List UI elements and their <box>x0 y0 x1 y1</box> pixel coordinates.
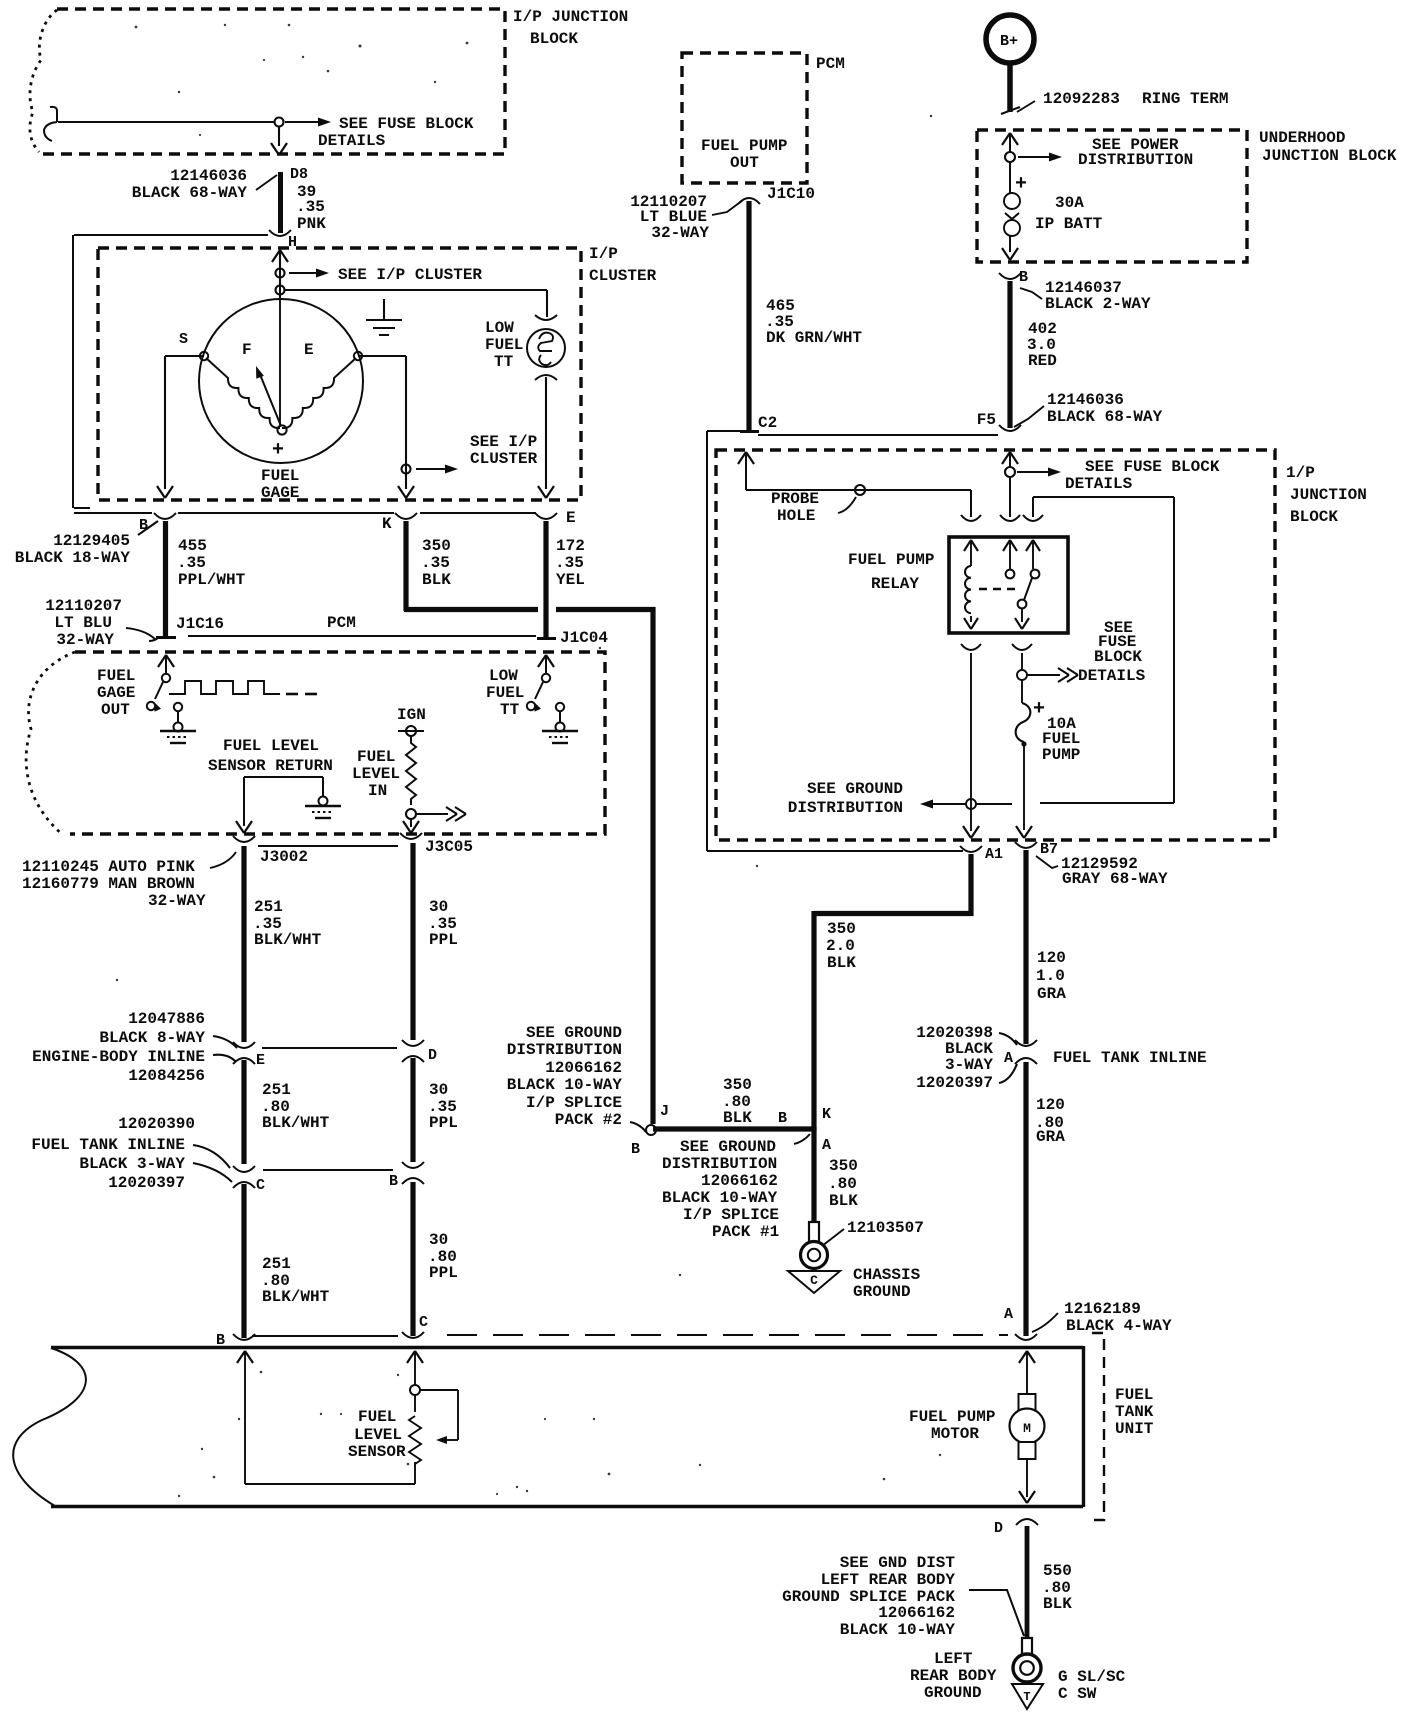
svg-text:12146036: 12146036 <box>170 167 247 185</box>
svg-text:FUEL: FUEL <box>97 667 135 685</box>
svg-text:FUEL: FUEL <box>485 336 523 354</box>
svg-text:350: 350 <box>422 537 451 555</box>
svg-text:UNDERHOOD: UNDERHOOD <box>1259 129 1345 147</box>
svg-text:12146036: 12146036 <box>1047 391 1124 409</box>
svg-text:BLACK 10-WAY: BLACK 10-WAY <box>507 1076 623 1094</box>
svg-text:C: C <box>419 1314 428 1331</box>
svg-text:B7: B7 <box>1040 841 1058 858</box>
svg-text:D: D <box>994 1520 1003 1537</box>
svg-text:120: 120 <box>1037 949 1066 967</box>
svg-text:H: H <box>288 234 297 251</box>
svg-text:12020397: 12020397 <box>916 1074 993 1092</box>
svg-text:12103507: 12103507 <box>847 1219 924 1237</box>
svg-text:+: + <box>272 439 284 462</box>
svg-text:BLK/WHT: BLK/WHT <box>262 1114 330 1132</box>
svg-text:I/P SPLICE: I/P SPLICE <box>683 1206 779 1224</box>
svg-text:DETAILS: DETAILS <box>1065 475 1133 493</box>
svg-text:455: 455 <box>178 537 207 555</box>
svg-text:HOLE: HOLE <box>777 507 815 525</box>
svg-text:TT: TT <box>494 353 514 371</box>
svg-text:B: B <box>631 1141 640 1158</box>
svg-text:BLK/WHT: BLK/WHT <box>254 931 322 949</box>
svg-text:E: E <box>256 1052 265 1069</box>
svg-text:JUNCTION: JUNCTION <box>1290 486 1367 504</box>
svg-text:12066162: 12066162 <box>878 1604 955 1622</box>
svg-text:+: + <box>1015 173 1027 196</box>
svg-text:LEFT: LEFT <box>934 1650 973 1668</box>
svg-text:IN: IN <box>368 782 387 800</box>
svg-text:E: E <box>304 341 314 359</box>
svg-text:BLK/WHT: BLK/WHT <box>262 1288 330 1306</box>
svg-text:BLACK 8-WAY: BLACK 8-WAY <box>99 1029 205 1047</box>
svg-text:12129405: 12129405 <box>53 532 130 550</box>
svg-text:550: 550 <box>1043 1562 1072 1580</box>
svg-text:BLK: BLK <box>723 1109 752 1127</box>
svg-text:3-WAY: 3-WAY <box>945 1056 993 1074</box>
svg-text:12020390: 12020390 <box>118 1115 195 1133</box>
svg-text:B+: B+ <box>1000 33 1018 50</box>
svg-text:+: + <box>1033 698 1045 721</box>
svg-text:SEE I/P CLUSTER: SEE I/P CLUSTER <box>338 266 482 284</box>
svg-text:FUEL: FUEL <box>358 1408 396 1426</box>
svg-text:30: 30 <box>429 898 448 916</box>
svg-text:I/P SPLICE: I/P SPLICE <box>526 1094 622 1112</box>
svg-text:251: 251 <box>262 1255 291 1273</box>
svg-text:J1C10: J1C10 <box>767 185 815 203</box>
svg-text:FUEL: FUEL <box>486 684 524 702</box>
svg-text:12020397: 12020397 <box>108 1174 185 1192</box>
svg-text:350: 350 <box>829 1157 858 1175</box>
svg-text:GRAY 68-WAY: GRAY 68-WAY <box>1062 870 1168 888</box>
svg-text:LEVEL: LEVEL <box>352 765 400 783</box>
svg-text:FUEL: FUEL <box>261 467 299 485</box>
svg-text:12092283: 12092283 <box>1043 90 1120 108</box>
svg-text:172: 172 <box>556 537 585 555</box>
svg-text:PNK: PNK <box>297 215 326 233</box>
svg-text:A1: A1 <box>985 846 1003 863</box>
svg-text:F: F <box>242 341 252 359</box>
svg-text:I/P: I/P <box>589 245 618 263</box>
svg-text:A: A <box>822 1137 831 1154</box>
svg-text:30: 30 <box>429 1231 448 1249</box>
svg-text:IP BATT: IP BATT <box>1035 215 1103 233</box>
svg-text:.35: .35 <box>555 554 584 572</box>
svg-text:K: K <box>822 1106 831 1123</box>
svg-text:BLACK 3-WAY: BLACK 3-WAY <box>79 1155 185 1173</box>
svg-text:D8: D8 <box>290 166 308 183</box>
svg-text:BLACK 4-WAY: BLACK 4-WAY <box>1066 1317 1172 1335</box>
svg-text:RING TERM: RING TERM <box>1142 90 1228 108</box>
svg-text:1.0: 1.0 <box>1036 967 1065 985</box>
svg-text:J1C04: J1C04 <box>560 629 608 647</box>
svg-text:JUNCTION BLOCK: JUNCTION BLOCK <box>1262 147 1397 165</box>
svg-text:PACK #2: PACK #2 <box>555 1111 622 1129</box>
svg-text:S: S <box>179 331 188 348</box>
svg-text:BLOCK: BLOCK <box>1094 648 1142 666</box>
svg-text:12160779 MAN BROWN: 12160779 MAN BROWN <box>22 875 195 893</box>
svg-text:BLACK 18-WAY: BLACK 18-WAY <box>15 549 131 567</box>
svg-text:SEE FUSE BLOCK: SEE FUSE BLOCK <box>339 115 474 133</box>
svg-text:J3C05: J3C05 <box>425 838 473 856</box>
svg-text:CHASSIS: CHASSIS <box>853 1266 921 1284</box>
svg-text:30: 30 <box>429 1081 448 1099</box>
svg-text:BLACK 10-WAY: BLACK 10-WAY <box>662 1189 778 1207</box>
svg-text:1/P: 1/P <box>1286 464 1315 482</box>
svg-text:OUT: OUT <box>101 701 130 719</box>
svg-text:32-WAY: 32-WAY <box>56 631 114 649</box>
svg-text:32-WAY: 32-WAY <box>651 224 709 242</box>
svg-text:OUT: OUT <box>730 154 759 172</box>
svg-text:DETAILS: DETAILS <box>1078 667 1146 685</box>
svg-text:DISTRIBUTION: DISTRIBUTION <box>507 1041 622 1059</box>
svg-text:FUEL: FUEL <box>1115 1386 1153 1404</box>
svg-text:GROUND: GROUND <box>853 1283 911 1301</box>
svg-text:251: 251 <box>254 898 283 916</box>
svg-text:PUMP: PUMP <box>1042 746 1080 764</box>
svg-text:251: 251 <box>262 1081 291 1099</box>
svg-text:B: B <box>1019 269 1028 286</box>
svg-text:GRA: GRA <box>1036 1128 1065 1146</box>
svg-text:PCM: PCM <box>327 614 356 632</box>
svg-text:C: C <box>810 1273 818 1288</box>
svg-text:LOW: LOW <box>489 667 518 685</box>
svg-text:YEL: YEL <box>556 571 585 589</box>
svg-text:PROBE: PROBE <box>771 490 819 508</box>
svg-text:J3002: J3002 <box>260 848 308 866</box>
svg-text:GAGE: GAGE <box>97 684 135 702</box>
svg-text:SEE FUSE BLOCK: SEE FUSE BLOCK <box>1085 458 1220 476</box>
svg-text:PACK #1: PACK #1 <box>712 1223 779 1241</box>
svg-text:.35: .35 <box>177 554 206 572</box>
svg-text:FUEL PUMP: FUEL PUMP <box>848 551 934 569</box>
svg-text:MOTOR: MOTOR <box>931 1425 979 1443</box>
svg-text:B: B <box>389 1173 398 1190</box>
svg-text:DETAILS: DETAILS <box>318 132 386 150</box>
svg-text:BLACK 10-WAY: BLACK 10-WAY <box>840 1621 956 1639</box>
svg-text:A: A <box>1004 1050 1013 1067</box>
svg-text:I/P JUNCTION: I/P JUNCTION <box>513 8 628 26</box>
svg-text:CLUSTER: CLUSTER <box>470 450 538 468</box>
svg-text:SENSOR: SENSOR <box>348 1443 406 1461</box>
svg-text:12066162: 12066162 <box>545 1059 622 1077</box>
svg-text:DK GRN/WHT: DK GRN/WHT <box>766 329 862 347</box>
svg-text:A: A <box>1004 1306 1013 1323</box>
svg-text:12110207: 12110207 <box>45 597 122 615</box>
svg-text:TANK: TANK <box>1115 1403 1154 1421</box>
svg-text:120: 120 <box>1036 1096 1065 1114</box>
svg-text:32-WAY: 32-WAY <box>148 892 206 910</box>
svg-text:M: M <box>1023 1421 1031 1436</box>
svg-text:PPL/WHT: PPL/WHT <box>178 571 246 589</box>
svg-text:E: E <box>566 509 576 527</box>
svg-text:350: 350 <box>827 920 856 938</box>
svg-text:LEFT REAR BODY: LEFT REAR BODY <box>821 1571 956 1589</box>
svg-text:G SL/SC: G SL/SC <box>1058 1668 1126 1686</box>
svg-text:IGN: IGN <box>397 706 426 724</box>
svg-text:F5: F5 <box>977 411 996 429</box>
svg-text:RELAY: RELAY <box>871 575 919 593</box>
svg-text:GAGE: GAGE <box>261 484 299 502</box>
svg-text:J: J <box>660 1103 669 1120</box>
svg-text:12084256: 12084256 <box>128 1067 205 1085</box>
svg-text:SEE GROUND: SEE GROUND <box>526 1024 622 1042</box>
svg-text:BLK: BLK <box>829 1192 858 1210</box>
svg-text:FUEL LEVEL: FUEL LEVEL <box>223 737 319 755</box>
svg-text:BLK: BLK <box>1043 1595 1072 1613</box>
svg-text:B: B <box>778 1110 787 1127</box>
svg-text:ENGINE-BODY INLINE: ENGINE-BODY INLINE <box>32 1048 205 1066</box>
svg-text:BLOCK: BLOCK <box>1290 508 1338 526</box>
svg-text:DISTRIBUTION: DISTRIBUTION <box>1078 151 1193 169</box>
svg-text:SEE I/P: SEE I/P <box>470 433 537 451</box>
svg-text:350: 350 <box>723 1076 752 1094</box>
svg-text:BLACK 68-WAY: BLACK 68-WAY <box>132 184 248 202</box>
svg-text:T: T <box>1023 1690 1030 1704</box>
svg-text:BLACK 68-WAY: BLACK 68-WAY <box>1047 408 1163 426</box>
svg-text:D: D <box>428 1047 437 1064</box>
svg-text:SEE GND DIST: SEE GND DIST <box>840 1554 956 1572</box>
svg-text:SEE GROUND: SEE GROUND <box>680 1138 776 1156</box>
svg-text:UNIT: UNIT <box>1115 1420 1154 1438</box>
svg-text:2.0: 2.0 <box>826 937 855 955</box>
svg-text:PPL: PPL <box>429 1114 458 1132</box>
svg-text:REAR BODY: REAR BODY <box>910 1667 997 1685</box>
svg-text:K: K <box>382 515 392 533</box>
svg-text:PPL: PPL <box>429 931 458 949</box>
svg-text:GROUND: GROUND <box>924 1684 982 1702</box>
svg-text:30A: 30A <box>1055 194 1084 212</box>
svg-text:BLK: BLK <box>422 571 451 589</box>
svg-text:CLUSTER: CLUSTER <box>589 267 657 285</box>
svg-text:SENSOR RETURN: SENSOR RETURN <box>208 757 333 775</box>
svg-text:BLOCK: BLOCK <box>530 30 578 48</box>
svg-text:FUEL TANK INLINE: FUEL TANK INLINE <box>1053 1049 1207 1067</box>
svg-text:FUEL PUMP: FUEL PUMP <box>909 1408 995 1426</box>
svg-text:12162189: 12162189 <box>1064 1300 1141 1318</box>
svg-text:C2: C2 <box>758 414 777 432</box>
svg-text:GRA: GRA <box>1037 985 1066 1003</box>
svg-text:J1C16: J1C16 <box>176 615 224 633</box>
svg-text:SEE GROUND: SEE GROUND <box>807 780 903 798</box>
svg-text:PPL: PPL <box>429 1264 458 1282</box>
svg-text:.35: .35 <box>296 198 325 216</box>
svg-text:DISTRIBUTION: DISTRIBUTION <box>788 799 903 817</box>
svg-text:12110245 AUTO PINK: 12110245 AUTO PINK <box>22 858 195 876</box>
svg-text:C SW: C SW <box>1058 1685 1097 1703</box>
svg-text:BLK: BLK <box>827 954 856 972</box>
svg-text:TT: TT <box>500 701 520 719</box>
svg-text:RED: RED <box>1028 352 1057 370</box>
svg-text:PCM: PCM <box>816 55 845 73</box>
svg-text:FUEL: FUEL <box>357 748 395 766</box>
svg-text:LOW: LOW <box>485 319 514 337</box>
svg-text:DISTRIBUTION: DISTRIBUTION <box>662 1155 777 1173</box>
svg-text:.80: .80 <box>828 1175 857 1193</box>
svg-text:.35: .35 <box>421 554 450 572</box>
svg-text:LT BLU: LT BLU <box>54 614 112 632</box>
svg-text:BLACK 2-WAY: BLACK 2-WAY <box>1045 295 1151 313</box>
svg-text:LEVEL: LEVEL <box>354 1426 402 1444</box>
svg-text:12047886: 12047886 <box>128 1010 205 1028</box>
svg-text:FUEL PUMP: FUEL PUMP <box>701 137 787 155</box>
svg-text:12066162: 12066162 <box>701 1172 778 1190</box>
svg-text:FUEL TANK INLINE: FUEL TANK INLINE <box>31 1136 185 1154</box>
svg-text:C: C <box>256 1177 265 1194</box>
